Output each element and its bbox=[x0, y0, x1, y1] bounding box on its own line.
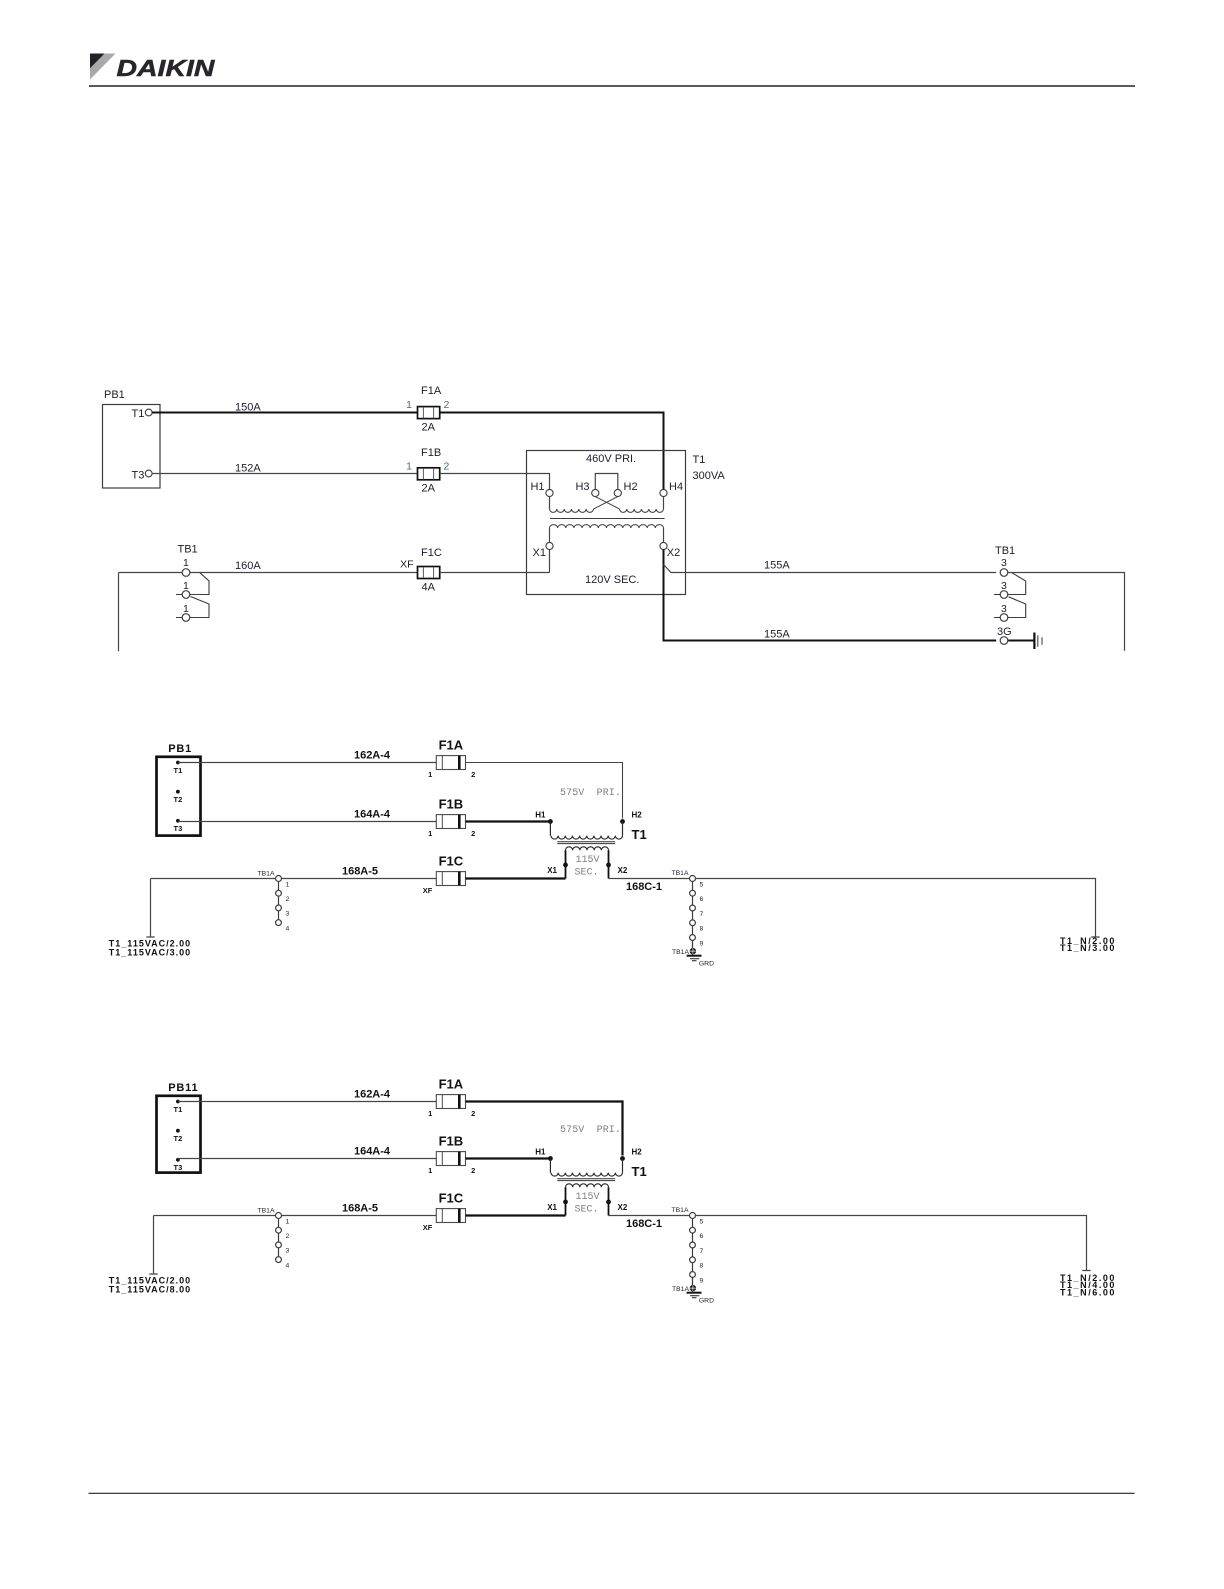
TB1 jumper 1-2 bbox=[176, 573, 209, 595]
wire 168A-5 (middle) bbox=[151, 866, 437, 879]
terminal strip TB1A left (bottom) bbox=[258, 1208, 290, 1270]
terminal strip TB1A right (bottom) bbox=[672, 1207, 704, 1285]
svg-text:1: 1 bbox=[428, 829, 432, 838]
wire F1A to H2 (bottom) bbox=[466, 1102, 623, 1156]
wire 160A bbox=[119, 560, 418, 573]
svg-text:164A-4: 164A-4 bbox=[354, 809, 391, 821]
svg-text:120V SEC.: 120V SEC. bbox=[585, 574, 639, 586]
wire 164A-4 (bottom) bbox=[178, 1146, 436, 1159]
TB1 jumper 2-3 bbox=[176, 597, 209, 618]
wire F1A to H2 (middle) bbox=[466, 763, 623, 819]
wire F1C to X1 bbox=[440, 572, 550, 574]
TB1 right jumper 1-2 bbox=[994, 573, 1026, 595]
svg-text:7: 7 bbox=[700, 1248, 704, 1255]
svg-text:1: 1 bbox=[183, 557, 189, 569]
svg-text:1: 1 bbox=[428, 1166, 432, 1175]
fuse F1A (top) 2A bbox=[406, 385, 449, 434]
svg-text:8: 8 bbox=[700, 926, 704, 933]
svg-text:XF: XF bbox=[423, 886, 433, 895]
fuse F1C (top) 4A bbox=[400, 547, 442, 594]
svg-text:TB1A: TB1A bbox=[672, 870, 689, 877]
wire 150A bbox=[152, 402, 417, 414]
svg-text:GRD: GRD bbox=[699, 960, 714, 967]
power block PB11 (bottom) bbox=[157, 1082, 201, 1173]
svg-text:168A-5: 168A-5 bbox=[342, 866, 378, 878]
svg-text:7: 7 bbox=[700, 911, 704, 918]
svg-text:460V PRI.: 460V PRI. bbox=[586, 453, 636, 465]
secondary leads bbox=[550, 528, 664, 542]
svg-text:DAIKIN: DAIKIN bbox=[117, 54, 216, 81]
svg-text:2: 2 bbox=[471, 1109, 475, 1118]
svg-text:168A-5: 168A-5 bbox=[342, 1203, 378, 1215]
svg-text:155A: 155A bbox=[764, 560, 790, 572]
svg-text:F1C: F1C bbox=[439, 854, 464, 869]
power block PB1 (middle) bbox=[157, 743, 201, 836]
wire continuation right (middle) bbox=[696, 879, 1100, 938]
primary coil right bbox=[620, 509, 664, 512]
svg-text:168C-1: 168C-1 bbox=[626, 881, 662, 893]
svg-text:3: 3 bbox=[286, 1248, 290, 1255]
wire 155A upper bbox=[664, 560, 997, 573]
secondary coil bbox=[550, 525, 664, 528]
svg-text:X1: X1 bbox=[533, 547, 546, 559]
svg-text:2: 2 bbox=[286, 1233, 290, 1240]
svg-text:PB1: PB1 bbox=[168, 743, 192, 755]
net labels left (middle) bbox=[109, 939, 191, 958]
svg-text:115V: 115V bbox=[575, 855, 599, 866]
svg-text:4: 4 bbox=[286, 925, 290, 932]
svg-text:2A: 2A bbox=[422, 483, 436, 495]
svg-text:X1: X1 bbox=[547, 1203, 557, 1212]
svg-text:F1B: F1B bbox=[439, 1134, 464, 1149]
svg-text:2: 2 bbox=[286, 896, 290, 903]
svg-text:TB1: TB1 bbox=[178, 544, 198, 556]
terminal block TB1 right (top) bbox=[994, 545, 1026, 644]
svg-text:4A: 4A bbox=[422, 582, 436, 594]
svg-text:8: 8 bbox=[700, 1263, 704, 1270]
svg-text:T1: T1 bbox=[632, 827, 647, 842]
svg-text:1: 1 bbox=[428, 1109, 432, 1118]
svg-text:T1_115VAC/8.00: T1_115VAC/8.00 bbox=[109, 1284, 191, 1294]
fuse F1A (middle) bbox=[428, 738, 475, 780]
svg-text:4: 4 bbox=[286, 1262, 290, 1269]
power block PB1 (top) bbox=[103, 389, 161, 488]
terminal block TB1 left (top) bbox=[176, 544, 209, 622]
svg-text:H4: H4 bbox=[669, 481, 683, 493]
footer rule bbox=[89, 1492, 1135, 1494]
svg-text:F1C: F1C bbox=[439, 1191, 464, 1206]
wire F1A to H4 bbox=[440, 413, 664, 490]
wire continuation right (bottom) bbox=[696, 1216, 1091, 1271]
fuse F1A (bottom) bbox=[428, 1077, 475, 1119]
svg-text:F1B: F1B bbox=[439, 797, 464, 812]
svg-text:T1: T1 bbox=[174, 1105, 183, 1114]
ground GRD (middle) bbox=[672, 940, 714, 967]
svg-text:575V PRI.: 575V PRI. bbox=[560, 788, 621, 799]
svg-text:T3: T3 bbox=[174, 1163, 183, 1172]
svg-text:T2: T2 bbox=[174, 795, 183, 804]
svg-text:TB1A: TB1A bbox=[258, 871, 275, 878]
svg-text:X1: X1 bbox=[547, 866, 557, 875]
wire 162A-4 (middle) bbox=[178, 750, 436, 763]
svg-text:152A: 152A bbox=[235, 463, 261, 475]
svg-text:F1A: F1A bbox=[421, 385, 442, 397]
wire continuation left (top) bbox=[118, 573, 120, 652]
svg-text:TB1: TB1 bbox=[995, 545, 1015, 557]
fuse F1C (bottom) bbox=[423, 1191, 466, 1233]
svg-text:168C-1: 168C-1 bbox=[626, 1218, 662, 1230]
svg-text:575V PRI.: 575V PRI. bbox=[560, 1125, 621, 1136]
Daikin logo mark bbox=[90, 54, 116, 80]
wire X2 down and 155A lower bbox=[664, 550, 997, 641]
svg-text:2: 2 bbox=[471, 1166, 475, 1175]
fuse F1B (middle) bbox=[428, 797, 475, 839]
svg-text:PB1: PB1 bbox=[104, 389, 125, 401]
svg-text:H1: H1 bbox=[530, 481, 544, 493]
transformer T1 300VA (top) bbox=[527, 451, 726, 595]
svg-text:H1: H1 bbox=[535, 811, 546, 820]
svg-text:2: 2 bbox=[471, 829, 475, 838]
core separator bbox=[550, 518, 665, 520]
svg-text:T1_115VAC/3.00: T1_115VAC/3.00 bbox=[109, 947, 191, 957]
svg-text:5: 5 bbox=[700, 1218, 704, 1225]
svg-text:T3: T3 bbox=[174, 824, 183, 833]
svg-text:XF: XF bbox=[400, 559, 413, 571]
svg-text:155A: 155A bbox=[764, 629, 790, 641]
svg-text:F1C: F1C bbox=[421, 547, 442, 559]
svg-text:6: 6 bbox=[700, 896, 704, 903]
svg-text:164A-4: 164A-4 bbox=[354, 1146, 391, 1158]
winding crossover bbox=[594, 497, 620, 509]
svg-text:SEC.: SEC. bbox=[574, 868, 598, 879]
svg-text:T3: T3 bbox=[132, 469, 145, 481]
wire F1B to H1 bbox=[440, 474, 550, 490]
wire 152A bbox=[152, 463, 417, 475]
terminal strip TB1A left (middle) bbox=[258, 871, 290, 933]
net labels left (bottom) bbox=[109, 1276, 191, 1295]
transformer T1 (bottom) bbox=[535, 1125, 646, 1216]
svg-text:2A: 2A bbox=[422, 422, 436, 434]
wire F1C to X1 (middle) bbox=[466, 877, 566, 879]
fuse F1B (bottom) bbox=[428, 1134, 475, 1176]
wire F1B to H1 (bottom) bbox=[466, 1157, 551, 1159]
svg-text:150A: 150A bbox=[235, 402, 261, 414]
svg-text:162A-4: 162A-4 bbox=[354, 750, 391, 762]
svg-text:2: 2 bbox=[444, 461, 450, 473]
ground (top right) bbox=[1008, 633, 1042, 650]
svg-text:H3: H3 bbox=[575, 481, 589, 493]
svg-text:H2: H2 bbox=[632, 1148, 643, 1157]
wire F1B to H1 (middle) bbox=[466, 820, 551, 822]
svg-text:PB11: PB11 bbox=[168, 1082, 198, 1094]
wire continuation left (middle) bbox=[146, 879, 154, 938]
svg-text:H1: H1 bbox=[535, 1148, 546, 1157]
wire 168C-1 (bottom) bbox=[609, 1216, 690, 1230]
svg-text:H2: H2 bbox=[624, 481, 638, 493]
svg-text:9: 9 bbox=[700, 1277, 704, 1284]
svg-text:SEC.: SEC. bbox=[574, 1205, 598, 1216]
ground GRD (bottom) bbox=[672, 1277, 714, 1304]
svg-text:1: 1 bbox=[286, 881, 290, 888]
svg-text:3: 3 bbox=[1001, 557, 1007, 569]
svg-text:T1_N/6.00: T1_N/6.00 bbox=[1060, 1287, 1116, 1297]
net labels right (bottom) bbox=[1060, 1273, 1116, 1298]
svg-text:1: 1 bbox=[286, 1218, 290, 1225]
svg-text:X2: X2 bbox=[667, 547, 680, 559]
svg-text:5: 5 bbox=[700, 881, 704, 888]
Daikin logo text bbox=[117, 54, 216, 81]
svg-text:TB1A: TB1A bbox=[672, 1207, 689, 1214]
svg-text:XF: XF bbox=[423, 1223, 433, 1232]
svg-text:T1: T1 bbox=[132, 408, 145, 420]
primary winding leads bbox=[549, 497, 551, 509]
wire F1C to X1 (bottom) bbox=[466, 1214, 566, 1216]
wire 162A-4 (bottom) bbox=[178, 1089, 436, 1102]
svg-text:X2: X2 bbox=[618, 866, 628, 875]
svg-text:GRD: GRD bbox=[699, 1297, 714, 1304]
fuse F1B (top) 2A bbox=[406, 447, 449, 495]
svg-text:3: 3 bbox=[286, 911, 290, 918]
header rule bbox=[89, 85, 1135, 87]
terminal strip TB1A right (middle) bbox=[672, 870, 704, 948]
svg-text:160A: 160A bbox=[235, 560, 261, 572]
TB1 right jumper 2-3 bbox=[994, 597, 1026, 618]
svg-text:H2: H2 bbox=[632, 811, 643, 820]
wire continuation right (top) bbox=[1008, 573, 1125, 651]
svg-text:F1B: F1B bbox=[421, 447, 441, 459]
wire 164A-4 (middle) bbox=[178, 809, 436, 822]
svg-text:F1A: F1A bbox=[439, 738, 464, 753]
svg-text:1: 1 bbox=[406, 461, 412, 473]
jumper H3-H2 bbox=[595, 474, 618, 490]
svg-text:2: 2 bbox=[444, 399, 450, 411]
svg-text:300VA: 300VA bbox=[693, 470, 726, 482]
svg-text:115V: 115V bbox=[575, 1192, 599, 1203]
svg-text:1: 1 bbox=[406, 399, 412, 411]
wire 168C-1 (middle) bbox=[609, 879, 690, 893]
net labels right (middle) bbox=[1060, 936, 1116, 953]
svg-text:T1: T1 bbox=[693, 454, 706, 466]
wire continuation left (bottom) bbox=[149, 1216, 157, 1275]
fuse F1C (middle) bbox=[423, 854, 466, 896]
svg-text:2: 2 bbox=[471, 770, 475, 779]
svg-text:T1_N/3.00: T1_N/3.00 bbox=[1060, 943, 1116, 953]
svg-text:X2: X2 bbox=[618, 1203, 628, 1212]
svg-text:TB1A: TB1A bbox=[258, 1208, 275, 1215]
wire 168A-5 (bottom) bbox=[154, 1203, 437, 1216]
svg-text:6: 6 bbox=[700, 1233, 704, 1240]
transformer T1 (middle) bbox=[535, 788, 646, 879]
svg-text:162A-4: 162A-4 bbox=[354, 1089, 391, 1101]
svg-text:9: 9 bbox=[700, 940, 704, 947]
svg-text:T2: T2 bbox=[174, 1134, 183, 1143]
svg-text:T1: T1 bbox=[174, 766, 183, 775]
svg-text:T1: T1 bbox=[632, 1164, 647, 1179]
svg-text:1: 1 bbox=[428, 770, 432, 779]
svg-text:F1A: F1A bbox=[439, 1077, 464, 1092]
primary coil left bbox=[550, 509, 594, 512]
